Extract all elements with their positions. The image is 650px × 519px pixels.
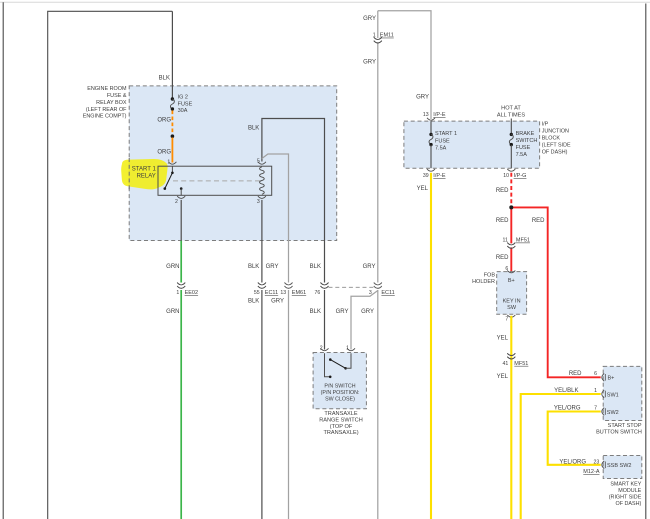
svg-text:ALL TIMES: ALL TIMES	[497, 113, 526, 119]
svg-text:RED: RED	[496, 188, 509, 194]
P/N switch blade contact dot	[329, 358, 332, 361]
connector gap EC11-3	[377, 283, 379, 287]
svg-text:YEL: YEL	[417, 186, 429, 192]
wire YEL from I/P-E 39 to bottom	[430, 173, 432, 519]
connector arcs redraw MF51	[507, 243, 515, 359]
svg-text:BLK: BLK	[310, 309, 321, 315]
connector EM61 arcs	[285, 283, 293, 289]
svg-text:FOB: FOB	[484, 273, 496, 279]
start stop pin SW1 arc	[602, 390, 604, 398]
relay pin 1 terminal arc	[168, 162, 176, 164]
svg-text:MF51: MF51	[516, 238, 530, 244]
connector arcs redraw row	[177, 283, 328, 289]
relay U1 box fill	[158, 166, 272, 195]
svg-text:(TOP OF: (TOP OF	[330, 424, 353, 430]
wire BLK from relay pin5 up and over to x=324.5	[262, 119, 325, 283]
wire GRY (EC11-3) down to bottom	[377, 290, 379, 519]
wire BLK from relay pin3 down	[261, 200, 263, 283]
svg-text:SMART KEY: SMART KEY	[610, 482, 641, 488]
connector 76 arcs	[321, 283, 329, 289]
splice dot redraw	[509, 205, 513, 209]
connector MF51-11 arcs	[507, 243, 515, 249]
svg-text:23: 23	[594, 460, 600, 466]
relay coil (pin5-pin3)	[260, 167, 265, 194]
svg-text:YEL/ORG: YEL/ORG	[554, 406, 581, 412]
svg-text:GRN: GRN	[166, 309, 179, 315]
svg-text:SSB SW2: SSB SW2	[607, 463, 631, 469]
svg-text:JUNCTION: JUNCTION	[542, 128, 569, 134]
dashed tie line between connector 76 and 3	[329, 286, 374, 288]
svg-text:39: 39	[423, 173, 429, 179]
FOB holder dashed box	[497, 272, 527, 315]
engine room fuse & relay box outline (partial tall box)	[48, 11, 173, 519]
svg-text:7.5A: 7.5A	[435, 146, 447, 152]
label FOB HOLDER	[472, 273, 495, 285]
wire GRY branch to P/N switch pin 1	[351, 291, 378, 350]
relay pin2 contact dot and stub	[180, 187, 183, 190]
svg-text:SWITCH: SWITCH	[516, 138, 538, 144]
start stop pin SW2 arc	[602, 408, 604, 416]
I/P junction block dashed box	[404, 121, 540, 168]
svg-text:RED: RED	[569, 371, 582, 377]
svg-text:M12-A: M12-A	[583, 469, 600, 475]
wire YEL/BLK to SW1	[521, 394, 601, 519]
label START 1 RELAY	[132, 167, 157, 180]
svg-text:2: 2	[175, 199, 178, 205]
wire RED branch right and down to B+	[513, 207, 601, 377]
svg-text:76: 76	[315, 290, 321, 296]
svg-text:13: 13	[280, 290, 286, 296]
FOB pin 7 exit arc	[507, 315, 515, 317]
P/N switch blade	[330, 360, 345, 369]
wire GRN pin2 below box	[180, 241, 182, 283]
svg-text:YEL/ORG: YEL/ORG	[559, 460, 586, 466]
svg-text:RED: RED	[532, 218, 545, 224]
svg-text:2: 2	[320, 346, 323, 352]
I/P-E 39 exit arc	[427, 169, 435, 171]
svg-text:P/N SWITCH: P/N SWITCH	[324, 384, 355, 390]
svg-text:1: 1	[346, 346, 349, 352]
brake switch fuse feed stub	[510, 119, 512, 135]
connector MF51-41 arcs	[507, 353, 515, 359]
fuse IG 2 30A	[170, 97, 174, 110]
I/P junction block terminal arc (pin 13)	[427, 118, 435, 120]
svg-text:BRAKE: BRAKE	[516, 131, 535, 137]
svg-text:SW1: SW1	[607, 392, 619, 398]
svg-text:OF DASH): OF DASH)	[616, 501, 642, 507]
svg-text:START 1: START 1	[132, 167, 157, 173]
wire YEL from FOB pin7 down to bottom	[510, 316, 512, 519]
svg-text:GRY: GRY	[363, 264, 376, 270]
svg-text:EC11: EC11	[381, 290, 394, 296]
svg-text:BUTTON SWITCH: BUTTON SWITCH	[596, 430, 642, 436]
svg-text:FUSE &: FUSE &	[107, 93, 127, 99]
svg-text:BLK: BLK	[248, 264, 259, 270]
svg-text:START STOP: START STOP	[608, 423, 642, 429]
svg-text:GRY: GRY	[363, 16, 376, 22]
transaxle range switch label	[319, 411, 363, 436]
svg-text:55: 55	[254, 290, 260, 296]
connector EC11-55 arcs	[258, 283, 266, 289]
relay pin 2 exit arc	[177, 196, 185, 198]
svg-text:1: 1	[594, 388, 597, 394]
page right border	[645, 4, 647, 519]
P/N switch text	[321, 384, 360, 403]
svg-text:5: 5	[257, 159, 260, 165]
I/P-G 10 exit arc	[507, 169, 515, 171]
svg-text:(LEFT REAR OF: (LEFT REAR OF	[86, 107, 127, 113]
svg-text:BLK: BLK	[310, 264, 321, 270]
yellow highlight over START 1 RELAY	[121, 159, 167, 189]
svg-text:EM11: EM11	[380, 33, 394, 39]
svg-text:BLK: BLK	[159, 76, 170, 82]
label START STOP BUTTON SWITCH	[596, 423, 642, 436]
connector gap EM11	[377, 38, 379, 42]
wire from relay pin2 down (dark inside box)	[180, 200, 182, 241]
svg-text:(P/N POSITION:: (P/N POSITION:	[321, 390, 360, 396]
I/P junction block label	[542, 121, 571, 155]
svg-text:41: 41	[503, 361, 509, 367]
label BRAKE SWITCH FUSE 7.5A	[516, 131, 538, 158]
connector gap MF51-11	[510, 243, 513, 247]
svg-text:B+: B+	[608, 376, 615, 382]
START STOP BUTTON SWITCH dashed box	[603, 366, 642, 420]
wire YEL/ORG to SW2	[548, 412, 601, 465]
wire GRY (EM61) down to bottom	[288, 290, 290, 519]
relay pin 5 terminal arc	[258, 162, 266, 164]
P/N switch pin 2 terminal arc	[321, 348, 329, 350]
fuse BRAKE SWITCH 7.5A	[510, 133, 513, 136]
P/N switch pin 1 terminal arc	[347, 348, 355, 350]
svg-text:1: 1	[176, 290, 179, 296]
splice dot (red junction)	[510, 206, 514, 210]
svg-text:ORG: ORG	[157, 149, 171, 155]
svg-text:SW: SW	[507, 305, 517, 311]
engine room fuse & relay box label	[83, 86, 127, 120]
smart key pin 23 arc	[602, 461, 604, 469]
wire GRY (EM11) down full height	[377, 11, 379, 283]
start 1 fuse wire inside block	[430, 121, 432, 134]
svg-text:I/P: I/P	[542, 121, 549, 127]
wire ORG dashed (fuse to splice)	[171, 111, 173, 135]
svg-text:MODULE: MODULE	[618, 488, 641, 494]
svg-text:KEY IN: KEY IN	[503, 299, 521, 305]
svg-text:BLK: BLK	[248, 299, 259, 305]
connector EM11 arcs	[374, 37, 382, 43]
svg-text:7: 7	[594, 406, 597, 412]
svg-text:START 1: START 1	[435, 131, 457, 137]
relay pin 3 exit arc	[258, 196, 266, 198]
svg-text:EC11: EC11	[265, 290, 278, 296]
svg-text:MF51: MF51	[514, 361, 528, 367]
label IG 2 FUSE 30A	[178, 95, 193, 114]
wire RED down from splice to MF51	[510, 207, 512, 271]
svg-text:7: 7	[505, 316, 508, 322]
label HOT AT ALL TIMES	[497, 105, 526, 118]
svg-text:FUSE: FUSE	[178, 102, 193, 108]
connector gap EM61	[287, 283, 289, 287]
label SMART KEY MODULE	[609, 482, 642, 507]
label START 1 FUSE 7.5A	[435, 131, 457, 151]
svg-text:13: 13	[423, 112, 429, 118]
svg-text:RED: RED	[496, 218, 509, 224]
splice dot	[171, 134, 175, 138]
svg-text:HOLDER: HOLDER	[472, 279, 495, 285]
P/N switch dashed box	[313, 353, 366, 409]
svg-text:ENGINE ROOM: ENGINE ROOM	[87, 86, 127, 92]
connector gap EC11-55	[261, 283, 263, 287]
connector EE02 arcs	[177, 283, 185, 289]
page left border	[2, 2, 4, 519]
wire BLK (76) down to P/N switch pin 2	[324, 290, 326, 350]
svg-text:RED: RED	[496, 255, 509, 261]
svg-text:SW2: SW2	[607, 410, 619, 416]
svg-text:EM61: EM61	[292, 290, 306, 296]
svg-text:BLOCK: BLOCK	[542, 135, 561, 141]
P/N switch pin2 inner stub	[325, 353, 331, 377]
relay U1 inner box	[158, 166, 272, 195]
relay actuator dashed line	[173, 180, 262, 182]
svg-text:EE02: EE02	[185, 290, 198, 296]
svg-text:(RIGHT SIDE: (RIGHT SIDE	[609, 494, 642, 500]
fuse START 1 7.5A	[429, 133, 432, 136]
svg-text:GRY: GRY	[271, 299, 284, 305]
relay switch blade (open, to lower-left)	[165, 173, 173, 189]
svg-text:ORG: ORG	[157, 118, 171, 124]
connector gap EE02	[180, 283, 182, 287]
svg-text:RELAY BOX: RELAY BOX	[96, 100, 127, 106]
svg-text:I/P-E: I/P-E	[433, 173, 446, 179]
svg-text:FUSE: FUSE	[435, 138, 450, 144]
connector EC11-3 arcs	[374, 283, 382, 289]
svg-text:GRY: GRY	[336, 309, 349, 315]
svg-text:GRY: GRY	[416, 95, 429, 101]
svg-text:HOT AT: HOT AT	[501, 105, 521, 111]
svg-text:10: 10	[503, 173, 509, 179]
svg-text:GRN: GRN	[166, 264, 179, 270]
svg-text:SW CLOSE): SW CLOSE)	[325, 397, 355, 403]
svg-text:YEL: YEL	[497, 374, 509, 380]
wire RED dashed from I/P-G 10 to splice	[510, 173, 512, 206]
svg-text:30A: 30A	[178, 108, 188, 114]
svg-text:B+: B+	[508, 278, 515, 284]
SMART KEY MODULE dashed box	[603, 456, 642, 479]
relay switch: pin1 stub and contact dot	[171, 166, 173, 172]
svg-text:7.5A: 7.5A	[516, 152, 528, 158]
wire GRY top (EM11) with corner to x=431	[378, 11, 431, 119]
svg-text:I/P-G: I/P-G	[514, 173, 527, 179]
engine room dashed box (light blue)	[129, 86, 337, 241]
wire BLK from fuse box top to IG2 fuse	[171, 11, 173, 98]
dashed border redraw over highlight	[128, 158, 130, 190]
FOB pin 6 terminal arc	[507, 270, 515, 272]
svg-text:IG 2: IG 2	[178, 95, 188, 101]
svg-text:6: 6	[594, 371, 597, 377]
wire ORG solid (splice to relay pin 1)	[171, 138, 173, 163]
connector gap 76	[323, 283, 325, 287]
svg-text:11: 11	[503, 238, 508, 244]
svg-text:GRY: GRY	[266, 264, 279, 270]
P/N switch pin1 inner stub	[346, 353, 351, 368]
wire BLK (EC11-55) down to bottom	[261, 290, 263, 519]
start stop pin B+ arc	[602, 374, 604, 382]
label KEY IN SW	[503, 299, 521, 312]
svg-text:3: 3	[257, 199, 260, 205]
svg-text:GRY: GRY	[361, 309, 374, 315]
svg-text:TRANSAXLE: TRANSAXLE	[324, 411, 358, 417]
svg-text:(LEFT SIDE: (LEFT SIDE	[542, 142, 571, 148]
svg-text:RANGE SWITCH: RANGE SWITCH	[319, 418, 363, 424]
wire GRN down to bottom	[180, 290, 182, 519]
svg-text:RELAY: RELAY	[137, 174, 156, 180]
svg-text:FUSE: FUSE	[516, 145, 531, 151]
svg-text:TRANSAXLE): TRANSAXLE)	[323, 430, 358, 436]
connector arcs redraw EM11	[374, 37, 382, 43]
svg-text:GRY: GRY	[363, 59, 376, 65]
svg-text:OF DASH): OF DASH)	[542, 149, 568, 155]
svg-text:ENGINE COMPT): ENGINE COMPT)	[83, 114, 127, 120]
svg-text:YEL/BLK: YEL/BLK	[554, 388, 578, 394]
svg-text:I/P-E: I/P-E	[433, 112, 446, 118]
svg-text:YEL: YEL	[497, 336, 509, 342]
svg-text:BLK: BLK	[248, 126, 259, 132]
page top border	[0, 1, 650, 3]
wire GRY branch from pin5 to x=288.5	[262, 154, 289, 283]
